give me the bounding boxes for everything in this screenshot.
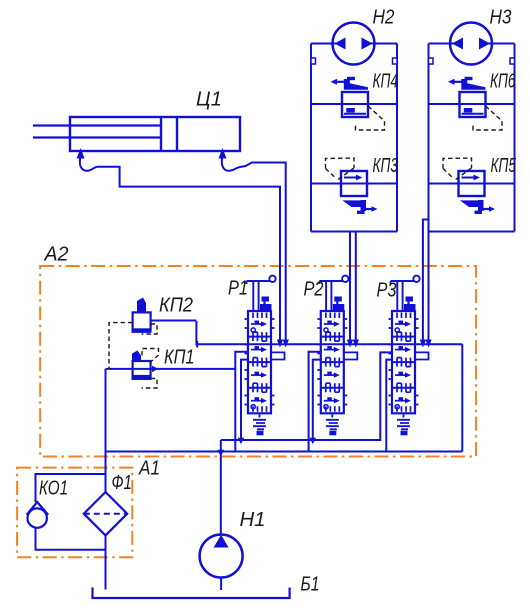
svg-text:Ф1: Ф1 xyxy=(112,471,133,494)
hydraulic motor Н3 xyxy=(450,23,492,65)
svg-text:КП5: КП5 xyxy=(491,154,517,177)
svg-text:КО1: КО1 xyxy=(39,477,68,500)
directional control valve Р2 xyxy=(317,276,357,436)
line from filter to tank xyxy=(105,535,107,589)
relief valve КП4 xyxy=(331,77,369,117)
svg-text:Ц1: Ц1 xyxy=(196,88,222,111)
svg-text:А1: А1 xyxy=(137,457,160,480)
wires from motor Н2 circuit down to valve Р2 xyxy=(350,232,356,341)
pilot dashed lines of КП1/КП2 xyxy=(109,323,159,388)
cylinder left port arrow xyxy=(77,148,85,159)
check valve КО1 loop xyxy=(36,474,106,550)
hydraulic cylinder Ц1 xyxy=(33,117,240,151)
valve Р1 left wires xyxy=(235,352,248,452)
relief valve КП6 xyxy=(448,77,486,117)
svg-text:Р1: Р1 xyxy=(228,277,248,300)
wire from cylinder right port to valve Р1 xyxy=(222,156,286,340)
relief valve КП5 xyxy=(459,171,496,214)
svg-text:КП2: КП2 xyxy=(159,294,194,317)
upper drain bus xyxy=(221,352,392,440)
wires of Н2 circuit box xyxy=(311,44,397,232)
return line right side down xyxy=(461,344,463,451)
junction arrows of work lines at valve Р1 xyxy=(277,340,289,348)
valve Р2 left wires xyxy=(309,352,321,452)
tank Б1 xyxy=(93,588,290,599)
svg-text:А2: А2 xyxy=(43,243,69,266)
suction line from filter up to КП1 xyxy=(105,369,107,492)
relief valve КП1 xyxy=(132,351,152,381)
junction arrows of work lines at valve Р2 xyxy=(347,340,359,348)
relief valve КП2 xyxy=(132,298,152,333)
line from drain bus down to pump Н1 xyxy=(220,440,222,535)
pressure rail across valves xyxy=(196,321,462,348)
lower tank bus xyxy=(106,451,463,453)
svg-text:Б1: Б1 xyxy=(301,573,320,596)
rail from КП2 xyxy=(151,320,197,322)
wires from motor Н3 circuit down to valve Р3 xyxy=(423,220,429,341)
pump suction to tank xyxy=(220,578,222,591)
svg-text:КП4: КП4 xyxy=(373,70,399,93)
hydraulic motor Н2 xyxy=(333,23,375,65)
svg-text:КП1: КП1 xyxy=(164,346,195,369)
wires of Н3 circuit box xyxy=(429,44,515,232)
check valve КО1 xyxy=(27,502,49,528)
svg-text:КП6: КП6 xyxy=(490,70,516,93)
A2 manifold block outline xyxy=(40,266,476,457)
valve Р3 left wires xyxy=(386,360,392,452)
pump Н1 xyxy=(200,535,243,578)
relief valve КП3 xyxy=(341,171,378,214)
svg-text:Н2: Н2 xyxy=(373,6,395,29)
svg-text:Н3: Н3 xyxy=(490,6,512,29)
A1 pump unit block outline xyxy=(17,468,132,558)
directional control valve Р1 xyxy=(245,276,285,436)
svg-text:КП3: КП3 xyxy=(373,154,399,177)
svg-text:Р3: Р3 xyxy=(377,279,397,302)
filter Ф1 xyxy=(84,492,127,535)
junction arrows of work lines at valve Р3 xyxy=(420,340,432,348)
cylinder right port arrow xyxy=(219,148,227,159)
svg-text:Р2: Р2 xyxy=(304,278,324,301)
directional control valve Р3 xyxy=(389,276,429,436)
wire from cylinder left port to valve Р1 xyxy=(80,156,280,340)
svg-text:Н1: Н1 xyxy=(240,508,266,531)
line through КП1 to drain xyxy=(106,368,236,370)
